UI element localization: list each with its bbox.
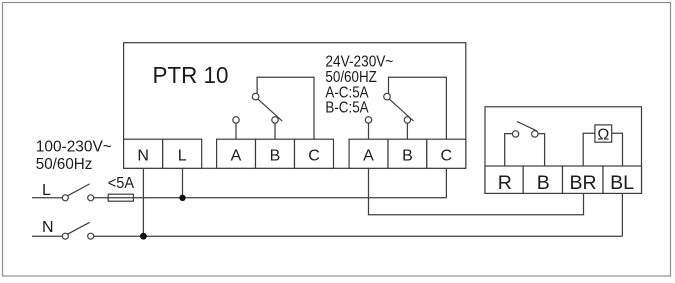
fuse F1 <box>108 194 133 201</box>
enclosure PTR10 <box>124 43 466 169</box>
svg-text:B: B <box>270 147 281 164</box>
svg-text:A: A <box>231 147 242 164</box>
label <5A <box>108 175 135 192</box>
switch S2 (N line) <box>32 222 94 239</box>
label N (line input) <box>42 219 54 236</box>
svg-text:B: B <box>537 172 550 194</box>
svg-text:BL: BL <box>610 172 634 194</box>
wire N line to BL terminal <box>94 193 623 236</box>
svg-text:A: A <box>363 147 374 164</box>
terminal C (relay 1) <box>295 139 334 168</box>
junction node L <box>179 195 185 201</box>
terminal C (relay 2) <box>427 139 466 168</box>
svg-text:<5A: <5A <box>108 175 135 192</box>
label 24V-230V~ 50/60HZ A-C:5A B-C:5A <box>325 53 393 116</box>
wire N terminal stub <box>142 168 144 236</box>
svg-text:N: N <box>137 147 149 164</box>
relay contact K2 (changeover A-B-C, relay 2) <box>365 77 446 139</box>
resistor sensor Ω <box>595 125 612 143</box>
svg-text:BR: BR <box>569 172 596 194</box>
terminal L <box>163 139 202 168</box>
svg-text:B-C:5A: B-C:5A <box>325 100 368 117</box>
svg-text:100-230V~: 100-230V~ <box>36 139 112 156</box>
svg-text:PTR 10: PTR 10 <box>153 62 229 88</box>
terminal B (relay 1) <box>256 139 295 168</box>
svg-text:50/60HZ: 50/60HZ <box>325 69 377 86</box>
terminal N <box>124 139 163 168</box>
switch S3 (thermostat contact R-B) <box>505 122 545 167</box>
wire A (relay 2) to BR terminal <box>369 168 584 214</box>
svg-text:L: L <box>178 147 187 164</box>
svg-text:B: B <box>402 147 413 164</box>
terminal B (relay 2) <box>388 139 427 168</box>
terminal B (thermostat) <box>523 166 562 194</box>
wire L terminal stub <box>182 168 184 198</box>
terminal BL <box>603 166 642 194</box>
label 100-230V~ 50/60Hz <box>36 139 112 174</box>
svg-text:R: R <box>498 172 512 194</box>
terminal R <box>485 166 523 194</box>
svg-text:C: C <box>441 147 453 164</box>
svg-text:Ω: Ω <box>597 126 609 143</box>
relay contact K1 (changeover A-B-C, relay 1) <box>233 77 314 139</box>
svg-text:C: C <box>308 147 320 164</box>
junction node N <box>140 233 147 240</box>
switch S1 (L line) <box>32 184 94 201</box>
wire sensor to BL <box>612 133 623 166</box>
label PTR 10 <box>153 62 229 88</box>
terminal A (relay 2) <box>349 139 388 168</box>
terminal BR <box>563 166 604 194</box>
enclosure thermostat (right box) <box>485 107 642 194</box>
svg-text:24V-230V~: 24V-230V~ <box>325 53 393 70</box>
svg-text:N: N <box>42 219 54 236</box>
terminal A (relay 1) <box>217 139 256 168</box>
wire L line to C terminal (relay 2) <box>94 168 447 198</box>
svg-text:L: L <box>42 182 51 199</box>
label L (line input) <box>42 182 51 199</box>
wire BR to sensor <box>583 133 595 166</box>
svg-text:50/60Hz: 50/60Hz <box>36 156 93 173</box>
